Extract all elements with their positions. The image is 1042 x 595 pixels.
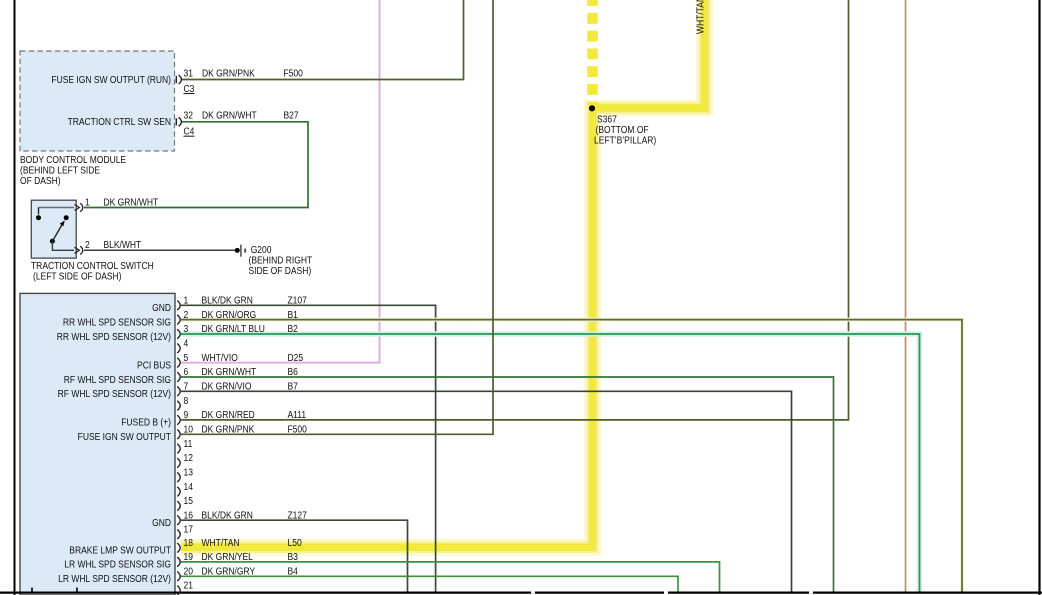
svg-text:21: 21 (184, 580, 193, 591)
svg-text:2: 2 (85, 240, 90, 251)
svg-text:B4: B4 (288, 566, 298, 577)
svg-text:DK GRN/PNK: DK GRN/PNK (202, 424, 256, 435)
svg-text:L50: L50 (288, 537, 302, 548)
svg-text:RF WHL SPD SENSOR (12V): RF WHL SPD SENSOR (12V) (58, 388, 171, 399)
svg-text:(BEHIND LEFT SIDE: (BEHIND LEFT SIDE (20, 165, 100, 176)
svg-text:16: 16 (184, 510, 193, 521)
svg-text:BLK/DK GRN: BLK/DK GRN (202, 295, 253, 306)
svg-text:RR WHL SPD SENSOR (12V): RR WHL SPD SENSOR (12V) (57, 331, 171, 342)
svg-text:FUSE IGN SW OUTPUT: FUSE IGN SW OUTPUT (78, 431, 172, 442)
svg-text:TRACTION CTRL SW SEN: TRACTION CTRL SW SEN (68, 117, 171, 128)
svg-text:TRACTION CONTROL SWITCH: TRACTION CONTROL SWITCH (31, 260, 154, 271)
svg-text:B3: B3 (288, 551, 298, 562)
svg-text:DK GRN/LT BLU: DK GRN/LT BLU (202, 324, 265, 335)
svg-text:BLK/DK GRN: BLK/DK GRN (202, 510, 253, 521)
svg-text:BLK/WHT: BLK/WHT (104, 240, 142, 251)
svg-text:6: 6 (184, 367, 189, 378)
svg-text:5: 5 (184, 352, 189, 363)
svg-text:32: 32 (184, 110, 193, 121)
svg-text:FUSED B (+): FUSED B (+) (121, 417, 171, 428)
svg-text:A111: A111 (288, 410, 307, 421)
svg-text:10: 10 (184, 424, 193, 435)
svg-text:F500: F500 (284, 68, 303, 79)
svg-text:B7: B7 (288, 381, 298, 392)
svg-text:DK GRN/WHT: DK GRN/WHT (202, 367, 257, 378)
svg-text:LR WHL SPD SENSOR SIG: LR WHL SPD SENSOR SIG (64, 559, 171, 570)
svg-text:PCI BUS: PCI BUS (137, 360, 171, 371)
svg-text:WHT/TAN: WHT/TAN (695, 0, 706, 34)
svg-text:S367: S367 (597, 114, 617, 125)
svg-text:DK GRN/GRY: DK GRN/GRY (202, 566, 256, 577)
svg-text:FUSE IGN SW OUTPUT (RUN): FUSE IGN SW OUTPUT (RUN) (51, 74, 171, 85)
svg-text:15: 15 (184, 495, 193, 506)
svg-text:13: 13 (184, 467, 193, 478)
svg-text:B27: B27 (284, 110, 299, 121)
svg-text:OF DASH): OF DASH) (20, 175, 61, 186)
svg-text:F500: F500 (288, 424, 307, 435)
svg-text:D25: D25 (288, 352, 304, 363)
svg-text:1: 1 (85, 197, 90, 208)
svg-text:GND: GND (152, 302, 171, 313)
svg-text:8: 8 (184, 395, 189, 406)
svg-text:G200: G200 (251, 244, 272, 255)
svg-text:Z107: Z107 (288, 295, 307, 306)
svg-text:WHT/TAN: WHT/TAN (202, 537, 240, 548)
svg-text:17: 17 (184, 524, 193, 535)
svg-text:20: 20 (184, 566, 193, 577)
svg-text:SIDE OF DASH): SIDE OF DASH) (249, 265, 312, 276)
svg-text:2: 2 (184, 309, 189, 320)
svg-text:4: 4 (184, 338, 189, 349)
svg-text:B2: B2 (288, 324, 298, 335)
svg-text:WHT/VIO: WHT/VIO (202, 352, 238, 363)
svg-text:11: 11 (184, 438, 193, 449)
svg-text:DK GRN/VIO: DK GRN/VIO (202, 381, 252, 392)
svg-text:DK GRN/WHT: DK GRN/WHT (202, 110, 257, 121)
svg-text:14: 14 (184, 481, 193, 492)
svg-text:1: 1 (184, 295, 189, 306)
svg-text:18: 18 (184, 537, 193, 548)
svg-text:RF WHL SPD SENSOR SIG: RF WHL SPD SENSOR SIG (64, 374, 171, 385)
svg-text:C3: C3 (184, 83, 195, 94)
svg-text:GND: GND (152, 517, 171, 528)
svg-text:7: 7 (184, 381, 189, 392)
svg-text:DK GRN/YEL: DK GRN/YEL (202, 551, 253, 562)
svg-text:(BEHIND RIGHT: (BEHIND RIGHT (249, 255, 313, 266)
svg-text:DK GRN/ORG: DK GRN/ORG (202, 309, 257, 320)
svg-text:B1: B1 (288, 309, 298, 320)
svg-text:LEFT’B’PILLAR): LEFT’B’PILLAR) (594, 135, 656, 146)
svg-text:(BOTTOM OF: (BOTTOM OF (596, 124, 649, 135)
svg-text:DK GRN/RED: DK GRN/RED (202, 410, 256, 421)
svg-text:B6: B6 (288, 367, 298, 378)
svg-text:19: 19 (184, 551, 193, 562)
svg-text:9: 9 (184, 410, 189, 421)
svg-text:12: 12 (184, 453, 193, 464)
svg-text:BODY CONTROL MODULE: BODY CONTROL MODULE (20, 154, 126, 165)
svg-text:3: 3 (184, 324, 189, 335)
svg-text:LR WHL SPD SENSOR (12V): LR WHL SPD SENSOR (12V) (58, 573, 171, 584)
svg-text:RR WHL SPD SENSOR SIG: RR WHL SPD SENSOR SIG (63, 317, 171, 328)
svg-text:Z127: Z127 (288, 510, 307, 521)
svg-text:BRAKE LMP SW OUTPUT: BRAKE LMP SW OUTPUT (69, 545, 171, 556)
svg-text:DK GRN/WHT: DK GRN/WHT (104, 197, 159, 208)
svg-text:C4: C4 (184, 126, 195, 137)
svg-text:(LEFT SIDE OF DASH): (LEFT SIDE OF DASH) (33, 271, 122, 282)
svg-text:31: 31 (184, 68, 193, 79)
svg-text:DK GRN/PNK: DK GRN/PNK (202, 68, 256, 79)
